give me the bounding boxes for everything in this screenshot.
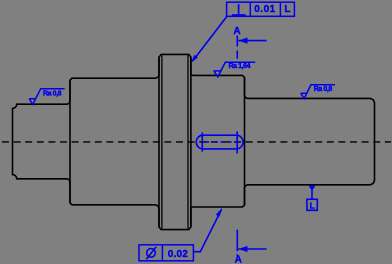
svg-text:0.01: 0.01 bbox=[254, 4, 275, 15]
section arrow A bottom bbox=[238, 248, 266, 250]
FCF leader line bbox=[194, 17, 227, 60]
shoulder face line (middle / right shaft) bbox=[244, 77, 246, 205]
flange chamfer edge line right bbox=[187, 55, 189, 228]
bottom FCF leader arrowhead bbox=[216, 208, 223, 217]
section line A bottom (dash-dot vertical) bbox=[236, 230, 238, 252]
svg-text:Ra 1,64: Ra 1,64 bbox=[229, 63, 251, 70]
svg-text:L: L bbox=[310, 201, 315, 211]
svg-text:Ra 0,8: Ra 0,8 bbox=[43, 90, 62, 97]
feature control frame (perpendicularity 0.01 L) bbox=[227, 2, 295, 16]
bottom FCF leader line bbox=[193, 210, 221, 252]
roughness symbol Ra 1,64 (middle section) bbox=[214, 62, 255, 77]
svg-text:L: L bbox=[284, 4, 290, 15]
centerline (horizontal axis) bbox=[2, 141, 391, 143]
svg-text:A: A bbox=[233, 26, 240, 37]
flange chamfer edge line left bbox=[161, 55, 163, 228]
svg-text:A: A bbox=[235, 255, 242, 264]
slot left center mark bbox=[201, 132, 203, 151]
svg-text:Ra 0,8: Ra 0,8 bbox=[314, 86, 333, 93]
perpendicularity symbol bbox=[232, 4, 246, 15]
datum stem bbox=[311, 190, 313, 199]
datum box bbox=[307, 199, 317, 210]
FCF leader arrowhead bbox=[191, 55, 198, 63]
roughness symbol Ra 0,8 (right shaft) bbox=[301, 85, 335, 99]
flange left face line bbox=[158, 58, 160, 227]
slot (obround) on middle section bbox=[196, 135, 243, 149]
flange right face line bbox=[190, 58, 192, 227]
cylindricity symbol bbox=[147, 249, 156, 258]
section arrow A top bbox=[238, 40, 266, 42]
roughness symbol Ra 0,8 (left stub) bbox=[29, 89, 64, 105]
bottom feature control frame (cylindricity 0.02) bbox=[139, 245, 193, 261]
shaft outline bbox=[13, 54, 375, 229]
svg-text:0.02: 0.02 bbox=[168, 249, 188, 260]
datum feature symbol L bbox=[308, 186, 315, 191]
section line A top (dash-dot vertical) bbox=[236, 36, 238, 47]
slot right center mark / section plane bbox=[236, 131, 238, 153]
slot horizontal centerline (blue dashes) bbox=[206, 141, 240, 143]
shoulder face line (stub / second section) bbox=[69, 80, 71, 203]
